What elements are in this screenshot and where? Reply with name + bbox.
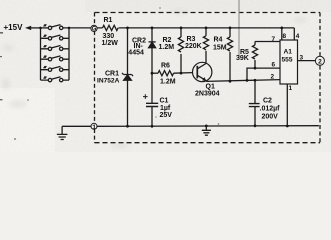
junction R4 bottom / emitter wire [229,80,232,83]
junction right rail / top rail [68,27,71,30]
svg-text:330: 330 [103,33,115,40]
resistor R6 [152,72,158,74]
svg-text:2: 2 [318,58,322,65]
op-amp/timer U1 555 [280,40,298,84]
svg-text:220K: 220K [185,43,202,50]
emitter / pin2 wire [206,80,280,82]
svg-text:CR1: CR1 [105,71,119,78]
svg-text:2N3904: 2N3904 [195,91,220,98]
wire tie pin6 to pin2 [247,68,255,80]
switch S1f [41,76,70,81]
switch left rail [40,28,42,80]
dashed enclosure border right [319,13,321,143]
svg-text:1µf: 1µf [160,105,171,112]
resistor R5 [254,42,256,46]
connector pin 1 (bottom left) [91,123,97,129]
svg-text:1.2M: 1.2M [160,79,176,86]
svg-text:1.2M: 1.2M [159,44,175,51]
dashed enclosure border bottom [95,142,321,144]
svg-text:R6: R6 [161,63,170,70]
arrowhead for +15V [25,26,31,30]
ground rail (bottom) [62,125,319,128]
connector pin G [91,25,97,31]
svg-text:4: 4 [296,33,300,40]
junction R5 bottom / pin 6 wire [254,67,257,70]
junction pin 8 / top rail [280,27,283,30]
junction CR1 / ground rail [126,125,129,128]
svg-text:8: 8 [283,33,287,40]
junction R2 / top rail [180,27,183,30]
junction CR2 column / top rail [151,27,154,30]
junction C2 top / emitter wire [254,79,257,82]
svg-text:A1: A1 [284,49,293,56]
wire right rail to node G [63,27,92,29]
svg-text:Q1: Q1 [206,84,215,91]
dashed enclosure border left [94,13,96,143]
svg-text:G: G [92,27,97,33]
pin 6 wire [255,67,280,69]
diode CR2 [151,28,153,42]
junction pin 1 / ground rail [286,125,289,128]
svg-text:6: 6 [272,62,276,69]
junction R4 / top rail [229,27,232,30]
dashed enclosure border top [95,12,321,14]
svg-text:C2: C2 [263,98,272,105]
svg-text:R4: R4 [214,37,223,44]
svg-text:15M: 15M [213,45,227,52]
junction left rail / +15V wire [39,27,42,30]
svg-text:1/2W: 1/2W [102,40,119,47]
transistor Q1 [193,62,212,81]
svg-text:+15V: +15V [4,23,24,32]
junction R2 bottom / R6-base node [180,72,183,75]
junction CR1 column / top rail [126,27,129,30]
junction ground symbol 2 / ground rail [205,125,208,128]
svg-text:R1: R1 [104,17,113,24]
resistor R3 [205,28,207,36]
svg-text:555: 555 [282,57,293,64]
pin 3 wire [298,60,316,62]
resistor R4 [229,28,231,37]
switch right rail [68,28,70,80]
svg-text:7: 7 [272,36,276,43]
top supply rail [97,27,295,29]
svg-text:C1: C1 [160,98,169,105]
svg-text:25V: 25V [160,112,173,119]
pin 4 wire [293,28,295,40]
switch S1d [41,56,70,61]
+15V input wire with arrow [28,27,41,29]
svg-text:3: 3 [300,55,304,62]
scan fold line artifact [238,0,240,58]
svg-text:1: 1 [92,124,96,131]
capacitor C1 [146,103,158,106]
zener diode CR1 [127,28,129,75]
switch S1e [41,66,70,71]
ground symbol 1 [61,126,63,134]
switch S1a (inline, top row) [41,24,63,29]
junction C2 / ground rail [254,124,257,127]
junction C1 / ground rail [151,125,154,128]
svg-text:39K: 39K [236,55,249,62]
svg-text:R3: R3 [187,36,196,43]
junction R3 / top rail [205,27,208,30]
svg-text:1: 1 [289,85,293,92]
svg-text:.012µf: .012µf [260,106,281,113]
resistor R2 [180,28,182,37]
scan specks [0,7,219,140]
connector pin 2 (output) [315,56,324,65]
svg-text:IN752A: IN752A [97,78,120,85]
svg-text:R2: R2 [163,37,172,44]
switch S1c [41,45,70,50]
junction CR2-C1 / R6 left [151,72,154,75]
pin 8 wire [281,28,283,40]
pin 7 wire [255,41,280,43]
capacitor C2 [254,80,256,103]
switch S1b [41,35,70,40]
svg-text:4454: 4454 [128,50,144,57]
junction tie wire / emitter wire [246,79,249,82]
ground symbol 2 [205,126,207,130]
svg-text:2: 2 [271,74,275,81]
resistor R1 [103,25,119,30]
pin 1 wire [286,84,288,126]
faint scan smudges [2,10,307,149]
svg-text:200V: 200V [262,114,279,121]
